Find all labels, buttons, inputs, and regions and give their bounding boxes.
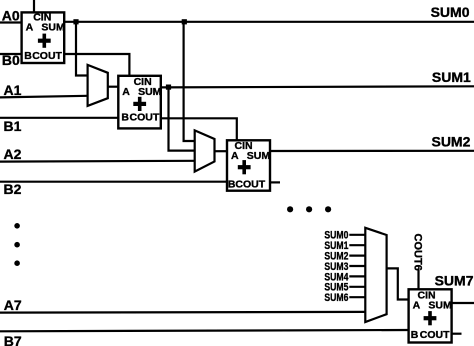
wire SUM0 drop to mux M2 top input xyxy=(184,22,195,141)
svg-text:A: A xyxy=(26,21,34,33)
node B7 label xyxy=(4,333,22,346)
svg-text:SUM2: SUM2 xyxy=(431,134,470,150)
wire mux M7 output to FA7 A input xyxy=(387,268,409,299)
wire A2 input line to mux M2 xyxy=(0,160,195,163)
node SUM6 mux input label xyxy=(324,292,348,304)
node SUM5 mux input label xyxy=(324,282,348,294)
svg-text:A: A xyxy=(231,150,239,162)
node SUM3 mux input label xyxy=(324,261,348,273)
svg-text:SUM7: SUM7 xyxy=(435,272,474,288)
node SUM7 label xyxy=(435,272,474,288)
svg-text:SUM1: SUM1 xyxy=(432,69,471,85)
node SUM0 mux input label xyxy=(324,230,348,242)
wire A1 input line to mux M1 xyxy=(0,96,88,98)
wire B0 input line xyxy=(0,53,22,55)
wire B7 input line xyxy=(0,330,409,331)
node B1 label xyxy=(4,118,22,134)
node B0 label xyxy=(2,52,20,68)
svg-text:SUM: SUM xyxy=(428,299,452,311)
svg-text:COUT: COUT xyxy=(130,112,160,124)
svg-text:SUM0: SUM0 xyxy=(431,4,470,20)
wire SUM2 stub into mux M7 xyxy=(349,255,365,257)
full adder FA0 xyxy=(22,11,65,63)
svg-text:A2: A2 xyxy=(4,146,22,162)
wire B1 input line xyxy=(0,117,118,119)
wire SUM0 output line to right edge xyxy=(64,21,474,23)
node SUM2 mux input label xyxy=(324,251,348,263)
node A7 label xyxy=(4,297,22,313)
svg-text:COUT: COUT xyxy=(32,50,62,62)
svg-text:SUM6: SUM6 xyxy=(324,292,348,304)
svg-text:COUT: COUT xyxy=(420,329,450,341)
svg-text:B: B xyxy=(121,112,129,124)
wire SUM1 drop to mux M2 middle input xyxy=(169,87,195,150)
vertical ellipsis dots left xyxy=(14,223,20,266)
mux M2 xyxy=(195,130,215,171)
svg-text:SUM: SUM xyxy=(41,21,65,33)
wire SUM6 stub into mux M7 xyxy=(349,296,365,298)
wire mux M2 output to FA2 A input xyxy=(215,150,228,152)
wire SUM4 stub into mux M7 xyxy=(349,275,365,277)
wire SUM1 output line to right edge xyxy=(161,86,474,87)
full adder FA1 xyxy=(118,76,161,129)
wire A0 input line xyxy=(0,21,22,23)
node A2 label xyxy=(4,146,22,162)
svg-text:B: B xyxy=(411,329,419,341)
node SUM1 right label xyxy=(432,69,471,85)
wire COUT1 to FA2 CIN xyxy=(161,118,237,140)
node COUT6 label (rotated) xyxy=(411,234,423,271)
wire mux M1 output to FA1 A input xyxy=(108,86,119,88)
full adder FA7 xyxy=(409,289,452,342)
svg-text:SUM: SUM xyxy=(247,150,271,162)
node SUM2 right label xyxy=(431,134,470,150)
wire COUT7 stub xyxy=(452,333,462,335)
svg-text:A0: A0 xyxy=(2,7,20,23)
wire SUM0 drop to mux M1 top input xyxy=(76,22,88,76)
wire SUM7 output line to right edge xyxy=(452,302,474,304)
svg-text:A1: A1 xyxy=(4,82,22,98)
svg-text:A: A xyxy=(413,299,421,311)
svg-text:B7: B7 xyxy=(4,333,22,346)
node A0 label xyxy=(2,7,20,23)
svg-text:B2: B2 xyxy=(4,181,22,197)
wire SUM3 stub into mux M7 xyxy=(349,265,365,267)
svg-text:A7: A7 xyxy=(4,297,22,313)
wire SUM0 stub into mux M7 xyxy=(349,234,365,236)
wire SUM2 output line to right edge xyxy=(270,150,474,152)
wire SUM5 stub into mux M7 xyxy=(349,286,365,288)
node SUM4 mux input label xyxy=(324,271,349,283)
mux M7 xyxy=(365,228,386,322)
wire A7 input line to mux M7 xyxy=(0,311,365,314)
wire COUT6 to FA7 CIN xyxy=(417,269,419,289)
node A1 label xyxy=(4,82,22,98)
svg-text:B1: B1 xyxy=(4,118,22,134)
svg-text:SUM: SUM xyxy=(138,86,162,98)
wire CIN input to FA0 from top edge xyxy=(33,0,35,12)
node B2 label xyxy=(4,181,22,197)
svg-text:COUT: COUT xyxy=(235,179,265,191)
junction on SUM0 line at x=183.6 xyxy=(182,19,187,24)
mux M1 xyxy=(88,65,108,106)
svg-text:A: A xyxy=(122,86,130,98)
junction on SUM0 line at x=76 xyxy=(73,19,78,24)
wire COUT0 to FA1 CIN xyxy=(64,54,129,76)
horizontal ellipsis dots center xyxy=(287,206,331,212)
junction on SUM1 line at x=168.5 xyxy=(166,85,171,90)
wire COUT2 stub xyxy=(270,181,280,183)
node SUM0 right label xyxy=(431,4,470,20)
wire SUM1 stub into mux M7 xyxy=(349,244,365,246)
svg-text:COUT6: COUT6 xyxy=(411,234,423,271)
wire B2 input line xyxy=(0,181,227,183)
full adder FA2 xyxy=(227,140,270,191)
svg-text:B: B xyxy=(24,50,32,62)
node SUM1 mux input label xyxy=(324,240,348,252)
